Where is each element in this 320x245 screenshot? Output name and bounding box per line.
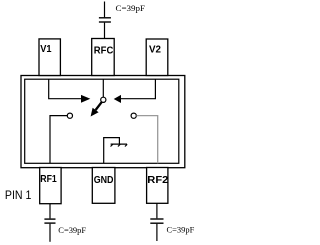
svg-text:RF1: RF1 xyxy=(40,174,57,185)
svg-text:RFC: RFC xyxy=(94,46,114,57)
svg-text:RF2: RF2 xyxy=(147,175,168,186)
svg-text:GND: GND xyxy=(94,175,114,186)
svg-text:V2: V2 xyxy=(149,45,161,56)
svg-text:PIN 1: PIN 1 xyxy=(5,188,32,202)
svg-text:C=39pF: C=39pF xyxy=(116,4,146,13)
svg-text:C=39pF: C=39pF xyxy=(58,226,86,235)
svg-text:V1: V1 xyxy=(40,44,52,55)
svg-text:C=39pF: C=39pF xyxy=(167,226,195,235)
